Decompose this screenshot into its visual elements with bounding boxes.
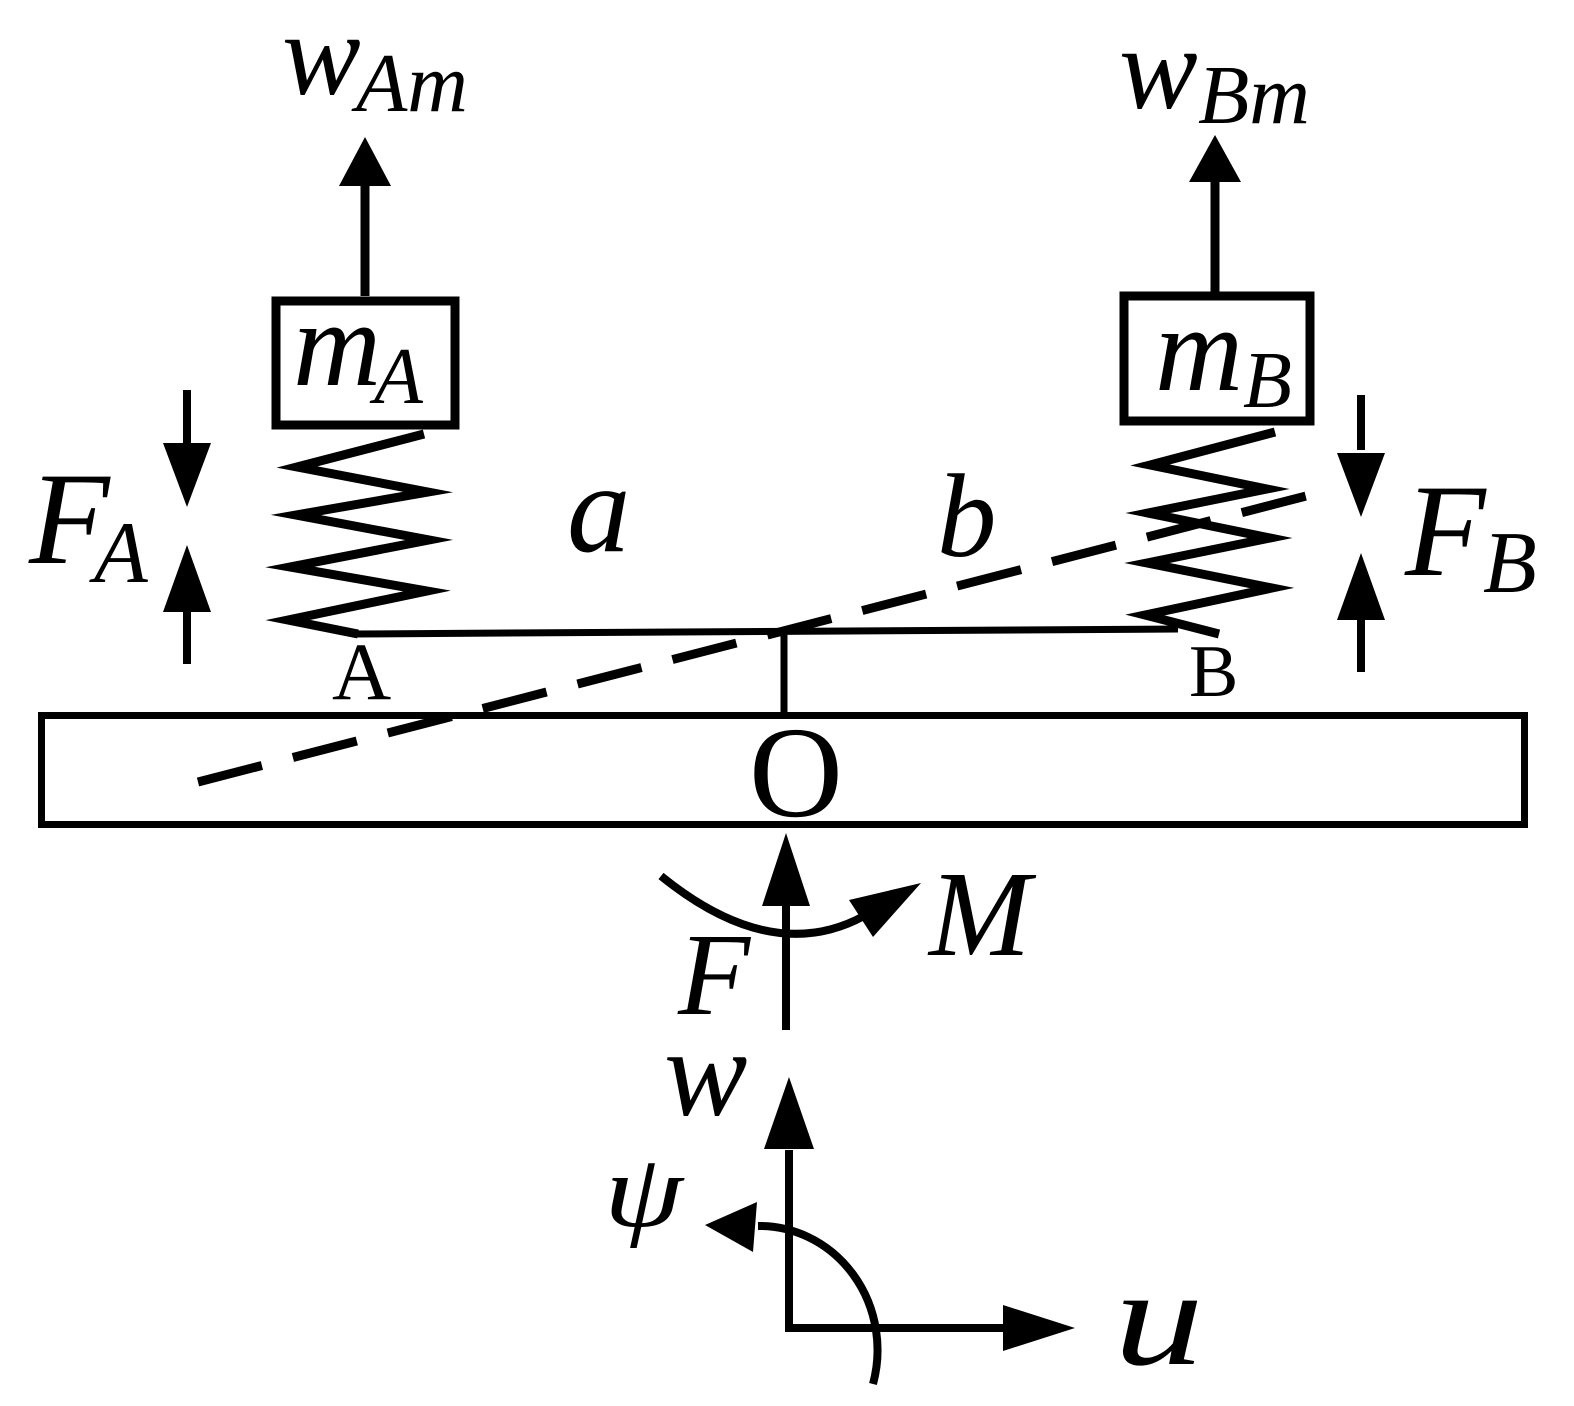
svg-text:B: B [1243, 337, 1292, 425]
svg-text:w: w [1119, 3, 1198, 134]
svg-text:Bm: Bm [1198, 49, 1310, 142]
svg-text:u: u [1114, 1241, 1204, 1394]
svg-text:A: A [89, 505, 149, 602]
svg-text:A: A [369, 333, 424, 421]
svg-text:M: M [927, 847, 1037, 982]
svg-text:B: B [1189, 631, 1238, 713]
svg-text:m: m [1155, 282, 1243, 417]
svg-text:O: O [749, 701, 843, 845]
svg-text:ψ: ψ [604, 1135, 685, 1250]
svg-text:A: A [332, 626, 391, 717]
svg-text:b: b [937, 450, 997, 582]
svg-text:w: w [664, 1005, 747, 1143]
svg-text:B: B [1483, 515, 1537, 612]
svg-text:m: m [293, 277, 381, 412]
svg-text:Am: Am [351, 37, 468, 130]
svg-text:a: a [567, 439, 631, 579]
svg-text:F: F [1404, 457, 1487, 604]
svg-text:w: w [282, 0, 361, 120]
